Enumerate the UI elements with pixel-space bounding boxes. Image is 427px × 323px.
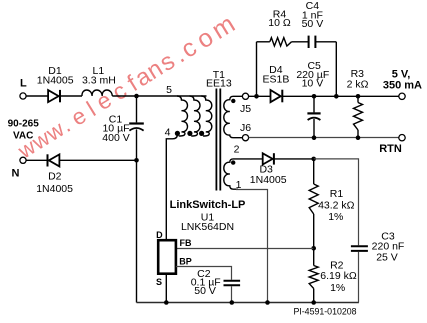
transformer T1 primary winding section 1: [177, 96, 188, 136]
resistor R4: [270, 38, 292, 46]
capacitor C3: [351, 246, 368, 251]
svg-text:VAC: VAC: [13, 130, 33, 141]
wire L1 to transformer primary (top rail): [112, 95, 206, 97]
primary section dot 1: [175, 131, 180, 136]
svg-text:PI-4591-010208: PI-4591-010208: [293, 307, 356, 317]
wire D3 to node: [274, 158, 314, 160]
wire D2 to node: [59, 159, 136, 161]
node R3 bottom: [356, 135, 361, 140]
primary section dot 2: [187, 131, 192, 136]
wire BP to C2: [176, 267, 232, 280]
wire left vertical to bottom rail: [136, 160, 138, 302]
node R3 top: [356, 94, 361, 99]
resistor R1: [309, 159, 318, 248]
node C1 top: [134, 94, 139, 99]
svg-text:1%: 1%: [330, 282, 345, 294]
node C1 bottom junction: [134, 158, 139, 163]
svg-text:50 V: 50 V: [302, 18, 324, 30]
primary section dot 3: [199, 131, 204, 136]
node snubber left: [254, 94, 259, 99]
svg-text:6.19 kΩ: 6.19 kΩ: [320, 270, 357, 282]
node FB junction: [311, 246, 316, 251]
bias polarity dot: [231, 160, 235, 164]
capacitor C4: [309, 36, 316, 48]
svg-text:RTN: RTN: [379, 143, 402, 155]
capacitor C5: [307, 96, 320, 137]
svg-text:2: 2: [234, 144, 240, 156]
svg-text:2 kΩ: 2 kΩ: [347, 78, 369, 90]
node D3 output: [311, 157, 316, 162]
resistor R3: [354, 96, 363, 137]
wire D3 node to C3 branch: [314, 159, 359, 245]
svg-text:J5: J5: [240, 103, 251, 115]
svg-text:FB: FB: [180, 238, 192, 248]
node R2 bottom: [311, 300, 316, 305]
wire RTN rail: [249, 137, 399, 139]
transformer T1 core: [216, 89, 220, 191]
svg-text:N: N: [12, 168, 20, 180]
wire R4 to C4: [292, 41, 309, 43]
svg-text:J6: J6: [240, 122, 251, 134]
terminal N: [20, 157, 26, 163]
diode D2: [48, 154, 60, 166]
node bias return: [265, 300, 270, 305]
svg-text:10 V: 10 V: [302, 77, 324, 89]
wire FB: [176, 248, 314, 250]
terminal output 5V: [399, 93, 405, 99]
wire output rail: [282, 95, 399, 97]
wire bias pin1 return: [236, 190, 268, 303]
wire primary pin4 to U1 drain: [166, 135, 177, 241]
capacitor C2: [224, 281, 241, 286]
secondary polarity dot: [231, 99, 235, 103]
svg-text:400 V: 400 V: [102, 132, 129, 144]
svg-text:43.2 kΩ: 43.2 kΩ: [318, 200, 355, 212]
op-amp U1 LNK564DN package: [158, 240, 176, 274]
svg-text:S: S: [156, 277, 162, 287]
svg-text:1%: 1%: [328, 211, 343, 223]
wire C2 to bottom rail: [231, 286, 233, 302]
terminal RTN: [399, 135, 405, 141]
transformer T1 secondary winding: [224, 96, 243, 137]
wire J5 to node: [249, 95, 271, 97]
diode D4: [271, 90, 283, 103]
svg-text:EE13: EE13: [206, 78, 232, 90]
svg-text:4: 4: [165, 126, 171, 138]
svg-text:LNK564DN: LNK564DN: [181, 221, 234, 233]
svg-text:1: 1: [236, 179, 242, 191]
connector J5: [242, 93, 248, 99]
wire L to D1: [26, 95, 47, 97]
diode D3: [263, 153, 274, 164]
svg-text:5: 5: [166, 84, 172, 96]
svg-text:LinkSwitch-LP: LinkSwitch-LP: [170, 199, 246, 211]
wire D1 to L1: [60, 95, 82, 97]
node S: [164, 300, 169, 305]
snubber left leg wire: [256, 42, 258, 97]
node C5 bottom: [312, 135, 317, 140]
svg-text:1N4005: 1N4005: [37, 75, 74, 87]
resistor R2: [309, 248, 318, 302]
svg-text:1N4005: 1N4005: [36, 183, 73, 195]
transformer T1 bias winding: [224, 159, 238, 189]
svg-text:50 V: 50 V: [194, 285, 216, 297]
capacitor C1: [129, 96, 144, 160]
transformer T1 primary winding section 2: [190, 96, 201, 136]
wire bottom rail: [137, 302, 359, 304]
svg-text:3.3 mH: 3.3 mH: [82, 75, 116, 87]
wire bias pin2 to D3: [238, 158, 263, 160]
svg-text:D2: D2: [48, 171, 62, 183]
wire N to D2: [26, 159, 47, 161]
svg-text:R1: R1: [330, 188, 344, 200]
wire U1 source to bottom rail: [165, 274, 167, 303]
svg-text:1N4005: 1N4005: [250, 174, 287, 186]
svg-text:10 Ω: 10 Ω: [268, 17, 291, 29]
connector J6: [242, 135, 248, 141]
wire snubber top left: [257, 41, 270, 43]
watermark www.elecfans.com: [13, 10, 240, 164]
svg-text:90-265: 90-265: [8, 119, 40, 130]
transformer T1 primary winding section 3: [201, 96, 212, 136]
node C5 top: [312, 94, 317, 99]
diode D1: [48, 90, 60, 102]
inductor L1: [82, 90, 112, 96]
svg-text:350 mA: 350 mA: [383, 80, 422, 92]
terminal L: [20, 93, 26, 99]
svg-text:D: D: [156, 230, 163, 240]
svg-text:ES1B: ES1B: [262, 74, 289, 86]
node C2 bottom: [230, 300, 235, 305]
snubber right leg wire: [335, 42, 337, 97]
wire C4 to snubber right leg: [316, 41, 336, 43]
node snubber right: [334, 94, 339, 99]
svg-text:L: L: [20, 78, 27, 90]
svg-text:BP: BP: [179, 257, 192, 267]
svg-text:25 V: 25 V: [376, 252, 398, 264]
wire C3 to bottom rail: [358, 252, 360, 303]
